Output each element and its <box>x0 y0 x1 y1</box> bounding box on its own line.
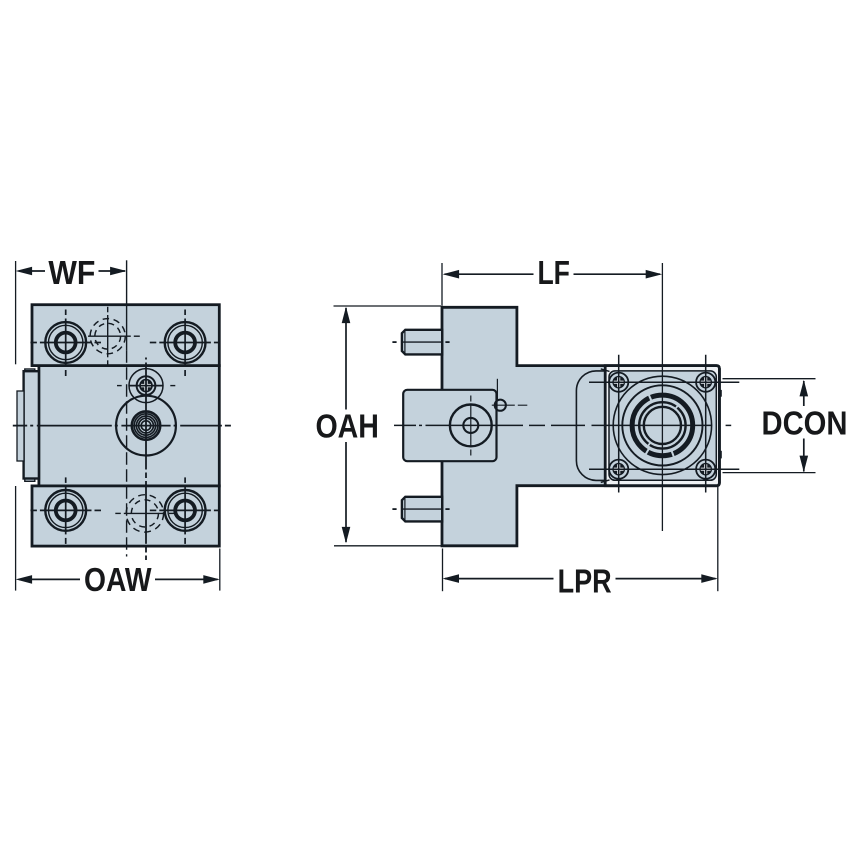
side stud top <box>402 330 442 355</box>
main centerline <box>394 424 416 426</box>
flange boss face <box>609 371 716 480</box>
sub-plate bore <box>450 405 492 447</box>
mounting bolt B1 <box>45 322 86 363</box>
svg-text:WF: WF <box>48 254 95 291</box>
set screw <box>495 400 506 411</box>
housing bell outline <box>576 371 605 481</box>
side stud bottom <box>402 497 442 522</box>
flange bolt crosshair v1 <box>618 355 620 493</box>
dimension OAH <box>334 305 442 307</box>
flange bolt F3 <box>609 460 628 479</box>
flange key tick top <box>719 390 722 397</box>
hub center boss <box>116 396 176 456</box>
svg-text:DCON: DCON <box>762 404 848 441</box>
clamp notch top <box>25 369 35 372</box>
dimension LF <box>441 263 443 306</box>
svg-text:OAW: OAW <box>84 561 152 598</box>
clamp sub-plate <box>403 390 496 461</box>
flange bolt crosshair v2 <box>705 355 707 493</box>
dimension OAW <box>15 486 17 591</box>
hub clamp screw <box>129 369 163 403</box>
flange bolt crosshair h2 <box>589 468 739 470</box>
hub horizontal centerline <box>13 425 27 427</box>
dimension WF <box>15 261 17 364</box>
flange corner chamfer bottom <box>601 480 610 483</box>
clamp thin plate <box>17 391 24 461</box>
clamp bar <box>24 371 39 478</box>
mounting bolt B2 <box>165 322 206 363</box>
flange bolt F2 <box>696 373 715 392</box>
hidden threaded hole top <box>90 319 125 354</box>
flange bolt F4 <box>696 460 715 479</box>
dimension LPR <box>442 549 444 592</box>
left view bottom flange band <box>32 486 219 546</box>
clamp notch bottom <box>25 478 35 482</box>
Capto coupling face <box>613 376 711 474</box>
mounting bolt B4 <box>165 490 206 531</box>
mounting bolt B3 <box>45 490 86 531</box>
flange corner chamfer top <box>601 369 610 372</box>
svg-text:LPR: LPR <box>558 563 612 600</box>
flange bolt crosshair h1 <box>589 381 739 383</box>
hidden threaded hole bottom <box>126 495 163 532</box>
right view body silhouette <box>442 307 719 546</box>
flange outer block <box>605 366 719 486</box>
left view middle body plate <box>39 366 219 486</box>
svg-text:LF: LF <box>537 254 570 291</box>
left view top flange band <box>32 305 219 366</box>
flange key tick bottom <box>719 451 722 459</box>
svg-text:OAH: OAH <box>315 407 379 444</box>
flange bolt F1 <box>609 373 628 392</box>
dimension DCON <box>723 378 816 380</box>
hub vertical centerline <box>145 358 147 360</box>
